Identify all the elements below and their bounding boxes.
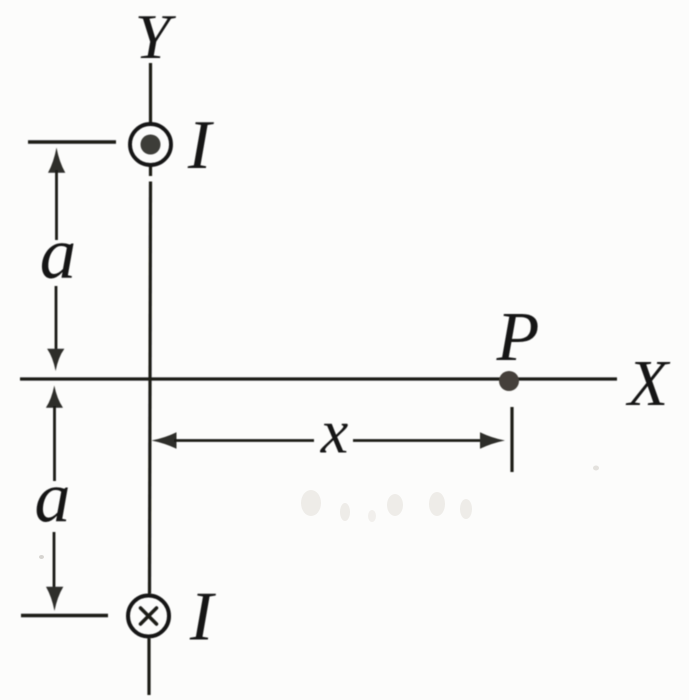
wire: Y axis middle segment (149, 167, 152, 177)
svg-text:X: X (625, 347, 671, 420)
dimension a (lower): down arrowhead (46, 587, 63, 611)
dimension a (upper): shaft upper (55, 170, 58, 240)
conductor symbol: current into page (circle) (128, 596, 169, 637)
svg-text:I: I (189, 579, 217, 656)
svg-text:P: P (496, 299, 540, 376)
svg-text:a: a (35, 458, 71, 538)
dimension x: shaft right (353, 439, 484, 442)
tick at bottom wire level (21, 614, 108, 618)
svg-text:x: x (320, 399, 349, 467)
dimension a (lower): up arrowhead (46, 386, 63, 408)
point P dot (499, 371, 519, 391)
X axis (20, 377, 617, 380)
tick at top wire level (28, 140, 116, 144)
wire: Y axis upper segment (149, 63, 152, 123)
dimension x: left arrowhead (152, 432, 177, 449)
ghost bleed-through marks (39, 466, 599, 560)
svg-text:a: a (40, 213, 77, 294)
tick at P (510, 407, 513, 472)
dimension x: right arrowhead (480, 432, 505, 449)
conductor symbol: current out of page (circle) (130, 124, 171, 165)
dimension a (lower): shaft lower (53, 532, 56, 588)
dimension a (upper): shaft lower (55, 286, 58, 352)
conductor symbol: current into page (cross) (141, 608, 157, 624)
svg-text:I: I (187, 107, 215, 184)
wire: Y axis bottom segment (147, 639, 150, 696)
dimension x: shaft left (174, 439, 314, 442)
dimension a (upper): down arrowhead (47, 349, 64, 371)
dimension a (upper): up arrowhead (48, 148, 65, 173)
conductor symbol: current out of page (dot) (141, 135, 161, 155)
dimension a (lower): shaft upper (53, 406, 56, 481)
